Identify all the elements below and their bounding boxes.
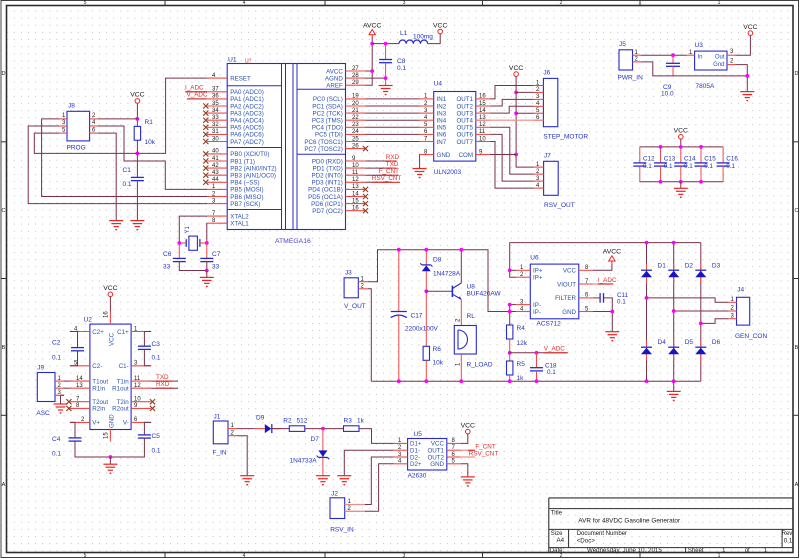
- wire VCC column to J7 pin1: [516, 155, 534, 168]
- svg-text:R1in: R1in: [92, 386, 105, 393]
- connector J9 label ASC: [36, 410, 50, 417]
- capacitor C9 labels: [661, 84, 674, 98]
- connector J6 pins: [534, 80, 544, 121]
- svg-text:PC7 (TOSC2): PC7 (TOSC2): [304, 146, 342, 153]
- svg-text:XTAL2: XTAL2: [230, 213, 249, 220]
- svg-text:C8: C8: [397, 58, 406, 65]
- no-connect X on U2 pin8: [66, 406, 71, 411]
- svg-text:RXD: RXD: [156, 381, 170, 388]
- wire R5 to bottom rail: [509, 375, 511, 381]
- svg-text:12k: 12k: [517, 340, 528, 347]
- wire C13 top lead: [660, 147, 662, 163]
- svg-text:C16: C16: [726, 156, 738, 163]
- svg-text:GND: GND: [437, 152, 451, 159]
- svg-text:V-: V-: [123, 420, 129, 427]
- svg-text:15: 15: [104, 432, 110, 439]
- wire J9 pin1 to T1out: [64, 380, 70, 382]
- connector J2 designator: [331, 491, 338, 498]
- svg-text:A: A: [795, 482, 799, 488]
- svg-text:PB6 (MISO): PB6 (MISO): [230, 194, 263, 201]
- junction U6 gnd: [610, 310, 614, 314]
- svg-text:PC2 (TCK): PC2 (TCK): [313, 110, 343, 117]
- ic U4 body: [434, 92, 476, 162]
- no-connect X on U1 pin 32: [203, 125, 208, 130]
- wire L1 to VCC: [428, 34, 441, 44]
- connector J7 designator: [544, 152, 551, 159]
- svg-text:AREF: AREF: [326, 83, 343, 90]
- junction phase3: [699, 322, 703, 326]
- resistor R1: [134, 126, 140, 140]
- svg-text:12: 12: [479, 122, 486, 128]
- wire C6 bottom: [179, 262, 207, 271]
- svg-text:2200x100V: 2200x100V: [405, 326, 439, 333]
- wire V_ADC to PA1: [187, 98, 207, 100]
- svg-text:C2-: C2-: [92, 363, 102, 370]
- capacitor C13: [654, 163, 667, 166]
- wire OUT1 to J6 pin1: [490, 86, 534, 99]
- svg-text:Title: Title: [551, 511, 563, 517]
- ic U5 body: [408, 439, 447, 471]
- svg-text:PB0 (XCK/T0): PB0 (XCK/T0): [230, 151, 269, 158]
- zener diode D8: [420, 263, 432, 271]
- wire U6 GND to ground: [593, 312, 613, 332]
- wire U4 GND to ground: [419, 155, 421, 169]
- power VCC at U2: [103, 285, 117, 297]
- wire U3 Out to VCC: [735, 35, 750, 55]
- svg-text:PA7 (ADC7): PA7 (ADC7): [230, 139, 264, 146]
- wire C11 to GND column: [604, 298, 613, 312]
- svg-text:IP+: IP+: [533, 275, 543, 282]
- junction IP+ pin1: [508, 268, 512, 272]
- capacitor C18: [530, 368, 543, 371]
- capacitor C11: [600, 293, 603, 303]
- no-connect X on U1 pin 41: [203, 158, 208, 163]
- svg-text:C14: C14: [684, 156, 696, 163]
- svg-text:C1+: C1+: [117, 329, 129, 336]
- wire C12 bottom lead: [639, 166, 641, 182]
- svg-text:GND: GND: [430, 461, 444, 468]
- resistor R5 labels: [517, 361, 526, 382]
- wire phase2 to J4 pin2: [674, 310, 729, 312]
- wire J8 pin1 to PB6 MISO: [42, 119, 208, 197]
- junction cap bank top x680.8: [679, 145, 683, 149]
- wire C1 to ground: [136, 181, 138, 221]
- svg-text:U4: U4: [434, 81, 443, 88]
- wire J8 pin4 to PB5 MOSI: [98, 126, 207, 189]
- svg-text:PB2 (AIN0/INT2): PB2 (AIN0/INT2): [230, 165, 276, 172]
- svg-text:C13: C13: [664, 156, 676, 163]
- wire RXD from U2 R1out: [151, 387, 178, 389]
- diode D6: [695, 347, 706, 354]
- svg-text:PA0 (ADC0): PA0 (ADC0): [230, 89, 264, 96]
- zener diode D7: [317, 450, 330, 459]
- power VCC at J6: [509, 65, 523, 76]
- no-connect X on U1 pin 13: [363, 187, 368, 192]
- diode D2: [668, 270, 679, 277]
- connector J3 body: [344, 278, 358, 298]
- load RL body: [454, 326, 476, 355]
- wire C15 bottom lead: [700, 166, 702, 182]
- wire VCC to cap bank rail: [680, 139, 682, 147]
- no-connect X on U1 pin 42: [203, 166, 208, 171]
- regulator U3 pins: [687, 49, 736, 65]
- svg-text:C2+: C2+: [92, 329, 104, 336]
- svg-text:IN2: IN2: [437, 103, 447, 110]
- ground below U4 pin8: [413, 169, 427, 178]
- connector J2 label RSV_IN: [330, 527, 354, 534]
- wire D7 column: [322, 429, 324, 476]
- mcu U1 designator: [228, 57, 252, 65]
- svg-text:35: 35: [212, 101, 219, 107]
- svg-text:RSV_IN: RSV_IN: [330, 527, 354, 534]
- resistor R4: [507, 325, 513, 339]
- capacitor C2 labels: [52, 340, 61, 362]
- regulator U3 designator: [695, 42, 704, 49]
- no-connect X on U1 pin 40: [203, 151, 208, 156]
- wire PC0 to IN1: [366, 98, 420, 100]
- ic U2 designator: [84, 317, 93, 324]
- transistor U8: [452, 283, 461, 299]
- svg-text:20: 20: [352, 101, 359, 107]
- svg-text:J2: J2: [331, 491, 338, 498]
- svg-text:ATMEGA16: ATMEGA16: [275, 238, 311, 245]
- svg-text:3: 3: [403, 553, 406, 559]
- svg-text:VCC: VCC: [563, 268, 577, 275]
- svg-text:14: 14: [76, 376, 83, 382]
- svg-text:D8: D8: [433, 257, 442, 264]
- capacitor C5: [138, 435, 151, 438]
- junction AVCC rail: [370, 42, 374, 46]
- wire J1 pin2 to ground: [237, 436, 247, 476]
- svg-text:R6: R6: [433, 346, 442, 353]
- svg-text:2: 2: [560, 553, 563, 559]
- bottom zone ticks and labels: [84, 553, 721, 559]
- capacitor C3 labels: [152, 341, 161, 362]
- junction C18 top: [535, 351, 539, 355]
- wire OUT2 RSV_CNT: [461, 456, 475, 458]
- wire R2 to junction to R3: [305, 428, 344, 430]
- svg-text:RXD: RXD: [386, 154, 400, 161]
- wire D8 column top: [425, 250, 427, 265]
- junction IP- pin4: [508, 310, 512, 314]
- junction IP- pin3: [508, 303, 512, 307]
- capacitor C7 labels: [212, 251, 221, 271]
- svg-text:PA1 (ADC1): PA1 (ADC1): [230, 96, 264, 103]
- svg-text:D: D: [2, 71, 6, 77]
- diode D9: [265, 424, 272, 433]
- resistor R6: [423, 346, 429, 360]
- ic U4 designator: [434, 81, 443, 88]
- svg-text:Sheet: Sheet: [688, 548, 704, 554]
- wire C16 bottom lead: [722, 166, 724, 182]
- power VCC at U3: [743, 24, 757, 35]
- wire base junction to U8: [426, 290, 452, 292]
- svg-text:VCC: VCC: [130, 92, 144, 99]
- power VCC at R1: [130, 92, 144, 104]
- svg-text:42: 42: [212, 163, 219, 169]
- svg-text:U5: U5: [414, 431, 423, 438]
- svg-text:Y1: Y1: [185, 225, 191, 233]
- wire OUT4 to J6 pin6: [476, 119, 544, 121]
- wire rail B: [510, 242, 701, 244]
- connector J6 body: [543, 78, 557, 126]
- wire cap bank ground stem: [680, 182, 682, 189]
- svg-text:0.1: 0.1: [617, 299, 626, 306]
- svg-text:44: 44: [212, 177, 219, 183]
- ground below J1: [240, 476, 254, 485]
- svg-text:VCC: VCC: [109, 332, 116, 346]
- wire RESET net: [34, 78, 207, 153]
- svg-text:12: 12: [352, 177, 359, 183]
- ground below cap bank: [674, 188, 688, 197]
- junction D7 top: [321, 427, 325, 431]
- svg-text:OUT4: OUT4: [456, 118, 473, 125]
- svg-text:A2630: A2630: [408, 473, 427, 480]
- no-connect X on U1 pin 14: [363, 194, 368, 199]
- ground below U5 D1-: [337, 476, 351, 485]
- wire FILTER to C11: [593, 297, 600, 299]
- svg-text:PD4 (OC1B): PD4 (OC1B): [308, 187, 343, 194]
- load RL pin labels: [455, 318, 461, 366]
- svg-text:R2out: R2out: [112, 406, 129, 413]
- ic U6 pin names: [533, 268, 577, 316]
- connector J4 designator: [737, 287, 744, 294]
- svg-text:XTAL1: XTAL1: [230, 221, 249, 228]
- wire J3 pin1 to rail A: [368, 250, 510, 312]
- net label RXD: [386, 154, 400, 161]
- wire bridge column 2: [673, 243, 675, 382]
- svg-text:29: 29: [352, 80, 359, 86]
- junction cap bank top x701.0: [699, 145, 703, 149]
- svg-text:10k: 10k: [145, 139, 156, 146]
- svg-text:C6: C6: [163, 251, 172, 258]
- no-connect X on U1 pin 31: [203, 132, 208, 137]
- ground below crystal: [200, 277, 214, 286]
- wire VCC column to COM: [515, 76, 517, 154]
- capacitor C1: [131, 177, 144, 180]
- mcu U1 right pin names: [304, 68, 343, 215]
- capacitor C16: [717, 163, 730, 166]
- top zone ticks and labels: [84, 0, 721, 6]
- junction AGND C8: [384, 76, 388, 80]
- svg-text:ASC: ASC: [36, 410, 50, 417]
- svg-text:PWR_IN: PWR_IN: [618, 75, 644, 82]
- wire V+ to C4: [70, 422, 75, 438]
- svg-text:PB1 (T1): PB1 (T1): [230, 158, 255, 165]
- wire R6 to bottom rail: [425, 360, 427, 381]
- connector J5 label PWR_IN: [618, 75, 644, 82]
- junction D5 bottom rail: [672, 379, 676, 383]
- svg-text:D7: D7: [311, 436, 320, 443]
- svg-text:RESET: RESET: [230, 75, 251, 82]
- power VCC at cap bank: [674, 128, 688, 140]
- capacitor C12: [633, 163, 646, 166]
- wire U8 emitter to RL: [460, 299, 462, 325]
- svg-text:21: 21: [352, 108, 359, 114]
- wire C14 top lead: [680, 147, 682, 163]
- svg-text:16: 16: [479, 94, 486, 100]
- svg-text:I_ADC: I_ADC: [598, 277, 617, 284]
- no-connect X on U1 pin 35: [203, 103, 208, 108]
- wire OUT5 to J7 pin2: [490, 127, 534, 174]
- junction C7 ground: [205, 269, 209, 273]
- ground below U3: [740, 92, 754, 101]
- svg-text:1: 1: [722, 547, 726, 554]
- svg-text:OUT1: OUT1: [456, 96, 473, 103]
- svg-text:23: 23: [352, 122, 359, 128]
- capacitor C17: [391, 312, 407, 318]
- svg-text:PC6 (TOSC1): PC6 (TOSC1): [304, 139, 342, 146]
- net label F_CNT: [379, 168, 399, 175]
- svg-text:0.1: 0.1: [547, 369, 556, 376]
- junction U2 pin15 rail: [109, 455, 113, 459]
- crystal Y1 designator: [185, 225, 191, 233]
- power VCC at L1: [433, 22, 447, 34]
- junction D2 rail B: [672, 241, 676, 245]
- wire AVCC pin27: [366, 70, 373, 72]
- net label I_ADC: [185, 85, 205, 92]
- junction phase2: [672, 309, 676, 313]
- regulator U3 label 7805A: [696, 83, 715, 90]
- no-connect X on U2 pin10: [150, 399, 155, 404]
- net label V_ADC: [544, 346, 567, 353]
- junction cap bank bottom x680.8: [679, 180, 683, 184]
- svg-text:T1out: T1out: [92, 378, 108, 385]
- wire IP- link to R4: [509, 305, 511, 325]
- svg-text:D9: D9: [256, 415, 265, 422]
- svg-text:AVCC: AVCC: [363, 22, 381, 29]
- svg-text:OUT5: OUT5: [456, 125, 473, 132]
- svg-text:0.1: 0.1: [52, 355, 61, 362]
- wire OUT2 to J6 pin3: [490, 99, 534, 106]
- svg-text:PA6 (ADC6): PA6 (ADC6): [230, 132, 264, 139]
- wire AVCC to L1 and VCC: [372, 43, 399, 45]
- wire J6 pin2 stub to VCC: [516, 91, 534, 93]
- svg-text:VCC: VCC: [433, 22, 447, 29]
- wire XTAL1 to crystal: [206, 223, 208, 243]
- capacitor C5 labels: [152, 433, 161, 455]
- net label I_ADC: [598, 277, 617, 284]
- connector J3 designator: [345, 270, 352, 277]
- svg-text:RSV_CNT: RSV_CNT: [469, 450, 499, 457]
- ic U5 designator: [414, 431, 423, 438]
- junction crystal left: [177, 241, 181, 245]
- svg-text:12: 12: [134, 383, 141, 389]
- junction R6 bottom rail: [424, 379, 428, 383]
- svg-text:U2: U2: [84, 317, 93, 324]
- svg-text:3: 3: [403, 0, 406, 6]
- svg-text:28: 28: [352, 73, 359, 79]
- svg-text:ULN2003: ULN2003: [434, 169, 462, 176]
- junction VCC COM: [514, 153, 518, 157]
- connector J6 label STEP_MOTOR: [543, 134, 588, 141]
- svg-text:33: 33: [212, 115, 219, 121]
- svg-text:VCC: VCC: [103, 285, 117, 292]
- wire crystal left to C6: [178, 243, 180, 258]
- wire PC5 to IN6: [366, 133, 420, 135]
- junction phase1: [645, 296, 649, 300]
- net label TXD: [386, 161, 399, 168]
- diode D6 leads: [700, 341, 702, 362]
- svg-text:D3: D3: [712, 263, 721, 270]
- connector J4 body: [737, 297, 750, 325]
- svg-text:PB3 (AIN1/OC0): PB3 (AIN1/OC0): [230, 173, 276, 180]
- junction C8 top: [384, 42, 388, 46]
- capacitor C4: [69, 438, 82, 441]
- svg-text:C15: C15: [704, 156, 716, 163]
- wire phase1 to J4 pin1: [647, 298, 729, 302]
- wire C5 to rail: [110, 438, 144, 457]
- wire bridge ground stem: [673, 381, 675, 391]
- wire C1+ to C3: [144, 332, 151, 347]
- wire VCC to U2 pin16: [109, 297, 111, 312]
- svg-text:26: 26: [352, 143, 359, 149]
- diode D4 leads: [646, 341, 648, 362]
- capacitor C7: [200, 258, 213, 261]
- junction D8 rail A: [424, 248, 428, 252]
- svg-text:C17: C17: [411, 313, 423, 320]
- svg-text:PD7 (OC2): PD7 (OC2): [312, 208, 343, 215]
- svg-text:13: 13: [352, 184, 359, 190]
- capacitor C1 labels: [123, 167, 132, 188]
- svg-text:U1: U1: [228, 57, 237, 64]
- mcu U1 body: [227, 64, 345, 230]
- inductor L1 labels: [400, 30, 433, 41]
- svg-text:J7: J7: [544, 152, 551, 159]
- svg-text:IP-: IP-: [533, 309, 541, 316]
- wire R4 to R5 junction: [509, 339, 511, 361]
- wire U5 D1- to ground: [344, 450, 393, 476]
- svg-text:5: 5: [84, 553, 87, 559]
- wire U3 Gnd down: [735, 65, 747, 92]
- diode D2 leads: [673, 264, 675, 285]
- capacitor C15: [695, 163, 708, 166]
- wire VCC to R1 top: [136, 103, 138, 126]
- wire RXD from U1: [366, 160, 393, 162]
- svg-text:13: 13: [76, 383, 83, 389]
- wire J9 pin2 to R1in: [64, 387, 70, 389]
- junction crystal right: [205, 241, 209, 245]
- svg-text:PROG: PROG: [67, 145, 86, 152]
- junction D8 R6 base: [424, 289, 428, 293]
- svg-text:PA3 (ADC3): PA3 (ADC3): [230, 110, 264, 117]
- junction U3 gnd rail: [745, 74, 749, 78]
- svg-text:19: 19: [352, 94, 359, 100]
- wire xtal ground stem: [206, 271, 208, 278]
- resistor R5: [507, 361, 513, 375]
- wire J8 pin2 to VCC net: [98, 118, 137, 120]
- wire C2 to C2-: [70, 351, 78, 366]
- junction cap bank bottom x660.5: [659, 180, 663, 184]
- connector J7 label RSV_OUT: [544, 202, 575, 209]
- svg-text:0.1: 0.1: [643, 163, 652, 170]
- no-connect X on U1 pin 30: [203, 139, 208, 144]
- wire C4 to rail: [75, 441, 110, 457]
- capacitor C11 labels: [617, 292, 629, 306]
- wire C17 bottom lead: [398, 316, 400, 381]
- svg-text:0.1: 0.1: [704, 163, 713, 170]
- connector J6 designator: [543, 70, 550, 77]
- svg-text:D1: D1: [658, 263, 667, 270]
- svg-text:D: D: [795, 71, 799, 77]
- svg-text:C12: C12: [643, 156, 655, 163]
- svg-text:1: 1: [718, 0, 721, 6]
- svg-text:7805A: 7805A: [696, 83, 715, 90]
- svg-text:IN1: IN1: [437, 96, 447, 103]
- ic U2 pin names: [92, 329, 129, 428]
- resistor R2 labels: [283, 417, 307, 424]
- svg-text:1k: 1k: [357, 417, 365, 424]
